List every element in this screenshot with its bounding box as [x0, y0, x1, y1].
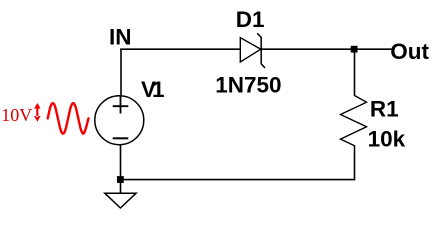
svg-text:V1: V1 — [141, 77, 164, 102]
svg-text:Out: Out — [390, 39, 429, 64]
svg-text:IN: IN — [109, 24, 132, 49]
wire: D1 cathode to Out — [261, 48, 394, 50]
zener diode D1 cathode bar with bent ends — [257, 33, 265, 68]
wire: Out junction down to R1 top lead — [354, 48, 356, 96]
voltage source V1 (circle) — [95, 96, 144, 145]
annotation: red double-headed arrow — [34, 103, 41, 122]
V1 plus sign — [113, 96, 129, 114]
svg-text:1N750: 1N750 — [215, 72, 281, 97]
wire: R1 bottom lead — [354, 145, 356, 180]
wire: bottom horizontal from ground node to R1 bottom — [120, 179, 354, 181]
V1 minus sign — [113, 137, 129, 139]
resistor R1 zigzag body — [341, 96, 367, 146]
svg-text:D1: D1 — [236, 7, 265, 32]
wire: vertical from IN corner down to V1 top — [120, 49, 122, 97]
wire: V1 bottom down to ground — [120, 145, 122, 194]
svg-text:10k: 10k — [368, 127, 406, 152]
ground symbol — [105, 193, 136, 208]
zener diode D1 anode triangle — [240, 38, 260, 62]
junction dot at Out node — [351, 46, 358, 53]
svg-text:10V: 10V — [1, 105, 32, 125]
junction dot at ground node — [117, 176, 124, 183]
wire: top horizontal from IN corner to D1 anode — [120, 48, 240, 50]
annotation: red sine waveform — [48, 103, 89, 133]
svg-text:R1: R1 — [370, 97, 399, 122]
